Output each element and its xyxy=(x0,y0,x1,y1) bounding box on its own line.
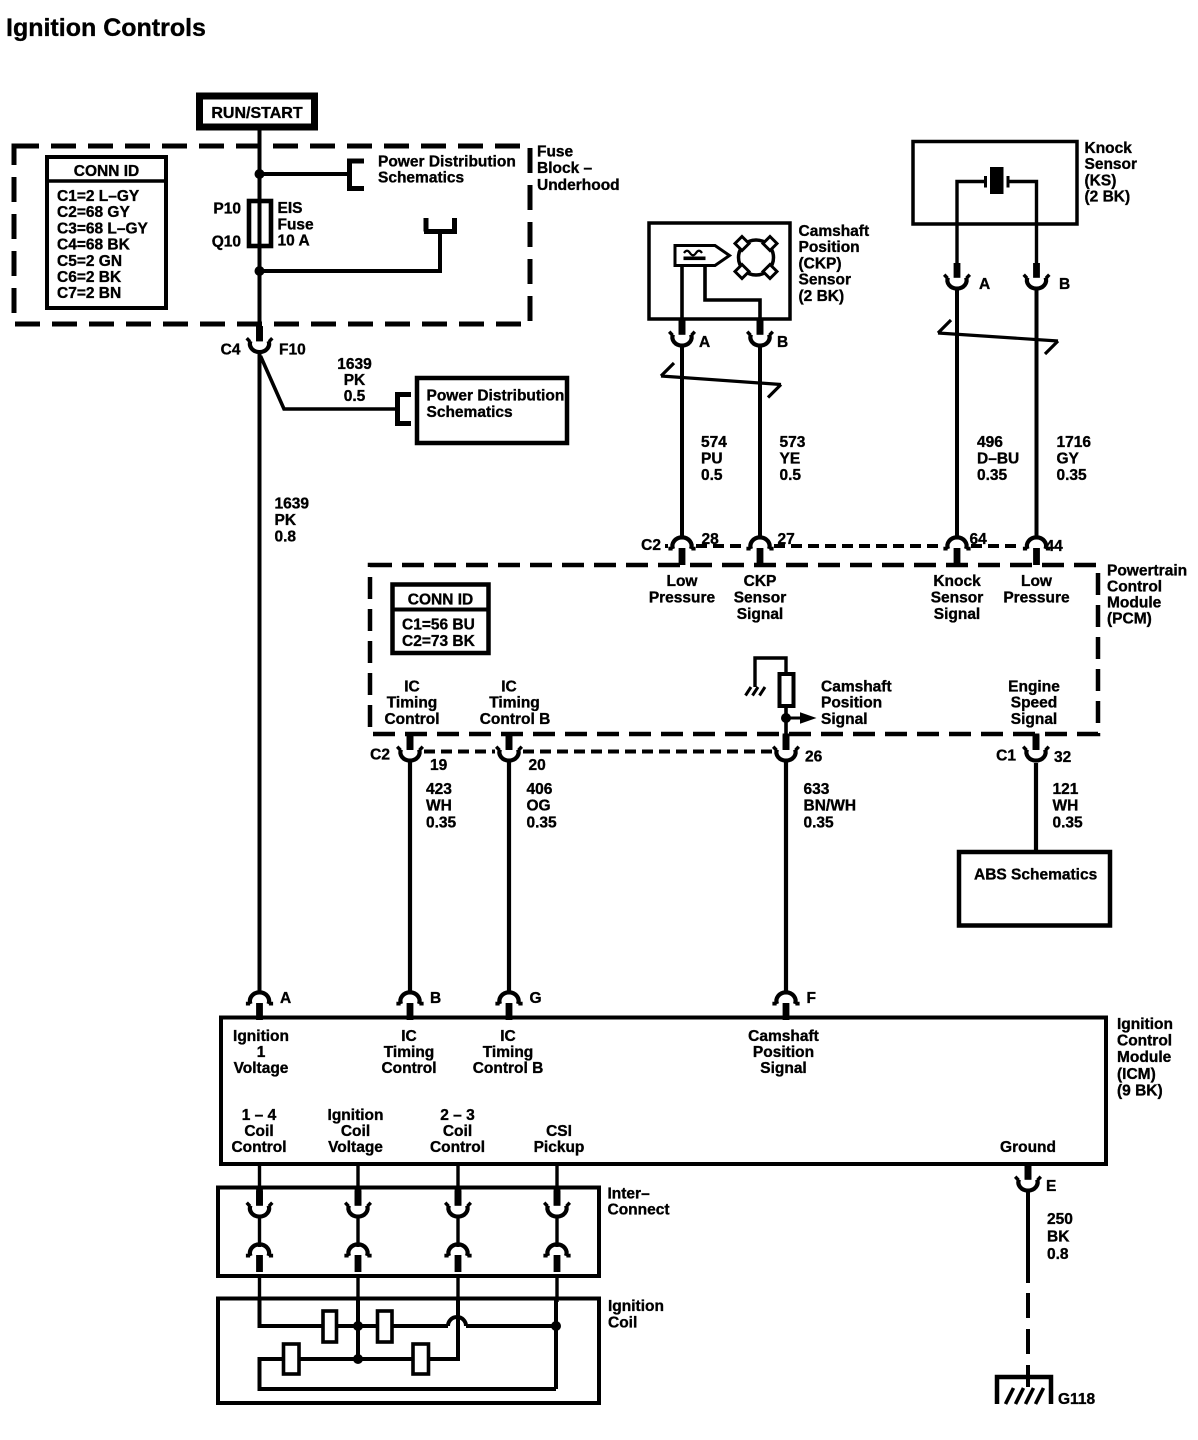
interior connector bracket symbol xyxy=(424,218,457,232)
connector PCM pin 26 xyxy=(773,735,799,761)
pin bar CKP A through box edge xyxy=(679,319,686,335)
svg-text:B: B xyxy=(777,334,788,351)
connector PCM pin 19 xyxy=(397,735,423,761)
svg-text:Q10: Q10 xyxy=(212,234,241,251)
node camshaft position signal junction xyxy=(781,713,791,723)
dashed connector line C2 (20-26) xyxy=(523,750,772,754)
pin bar PCM pin 26 through box edge xyxy=(783,734,790,751)
connector ICM pin E xyxy=(1015,1165,1041,1191)
connector ICM pin F xyxy=(772,992,799,1020)
svg-text:C2: C2 xyxy=(370,747,390,764)
node junction below fuse xyxy=(255,266,265,276)
dashed connector line C2 (64-44) xyxy=(971,544,1022,548)
svg-text:RUN/START: RUN/START xyxy=(211,105,302,122)
coil winding 1 xyxy=(323,1311,337,1342)
wire ICM coil pin 4 to interconnect xyxy=(555,1164,558,1190)
wire interconnect to ignition coil 1 xyxy=(258,1276,261,1302)
wire KS B to connector xyxy=(1035,224,1038,263)
connector KS pin A xyxy=(944,263,970,289)
node coil junction 1 xyxy=(353,1321,363,1331)
svg-text:64: 64 xyxy=(970,531,988,548)
wire 573 YE 0.5 xyxy=(758,347,762,536)
wire 1716 GY 0.35 xyxy=(1035,290,1039,536)
harness interrupt symbol (KS wires) xyxy=(938,320,1058,354)
ignition coil box xyxy=(218,1299,599,1404)
ground G118 xyxy=(997,1377,1051,1404)
wire 423 WH 0.35 xyxy=(408,762,412,991)
wire interconnect to ignition coil 2 xyxy=(356,1276,359,1302)
power distribution schematics box xyxy=(417,378,567,443)
interconnect connector pair bottom 1 xyxy=(246,1244,273,1272)
connector PCM pin 27 xyxy=(746,537,773,565)
inter-connect box xyxy=(218,1188,599,1277)
svg-text:A: A xyxy=(280,990,291,1007)
svg-text:E: E xyxy=(1046,1178,1056,1195)
pin bar CKP B through box edge xyxy=(757,319,764,335)
camshaft position (CKP) sensor box xyxy=(649,223,790,319)
wire branch 1639 PK 0.5 to power distribution schematics xyxy=(261,356,396,409)
coil wire 4 vertical xyxy=(554,1300,558,1389)
svg-text:P10: P10 xyxy=(213,201,241,218)
wire 121 WH 0.35 xyxy=(1034,763,1038,852)
connector PCM pin 44 xyxy=(1023,537,1050,565)
pin bar C4/F10 through fuse block edge xyxy=(256,326,263,341)
svg-text:C4: C4 xyxy=(221,342,241,359)
powertrain control module (PCM) dashed box xyxy=(370,565,1098,734)
coil secondary bus (wire 3) xyxy=(260,1300,557,1389)
PCM internal wire below resistor xyxy=(784,706,788,736)
connector KS pin B xyxy=(1024,263,1050,289)
interconnect connector pair bottom 2 xyxy=(344,1244,371,1272)
wire run/start feed into fuse block xyxy=(258,130,262,326)
connector C4 / F10 xyxy=(247,327,273,353)
svg-text:C1=56 BUC2=73 BK: C1=56 BUC2=73 BK xyxy=(402,617,476,651)
coil primary bus (wire 1) xyxy=(260,1300,557,1326)
connector PCM pin 28 xyxy=(668,537,695,565)
node coil junction 2 xyxy=(551,1321,561,1331)
svg-text:27: 27 xyxy=(778,531,795,548)
fuse EIS 10 A (P10/Q10) xyxy=(249,201,271,246)
knock sensor (KS) box xyxy=(913,142,1077,225)
connector PCM pin 64 xyxy=(943,537,970,565)
pin bar PCM pin 20 through box edge xyxy=(506,734,513,751)
svg-text:44: 44 xyxy=(1046,538,1064,555)
node junction to power distribution schematics xyxy=(255,169,265,179)
svg-text:20: 20 xyxy=(529,757,546,774)
pin bar PCM pin 19 through box edge xyxy=(407,734,414,751)
harness interrupt symbol (CKP wires) xyxy=(661,363,781,398)
svg-text:A: A xyxy=(979,276,990,293)
svg-text:F10: F10 xyxy=(279,342,306,359)
connector CKP pin A xyxy=(669,320,695,346)
wire KS A to connector xyxy=(955,224,958,263)
svg-text:CONN ID: CONN ID xyxy=(74,163,139,180)
CKP hall-effect sensor symbol xyxy=(675,246,730,266)
svg-text:B: B xyxy=(1059,276,1070,293)
interconnect connector pair top 4 xyxy=(544,1191,570,1217)
svg-text:CONN ID: CONN ID xyxy=(408,592,473,609)
svg-text:28: 28 xyxy=(702,531,720,548)
pin bar PCM pin 32 through box edge xyxy=(1033,734,1040,751)
crossover hump xyxy=(448,1317,466,1326)
dashed connector line C2 (19-20) xyxy=(424,750,495,754)
CKP internal wire B xyxy=(705,266,760,320)
CONN ID table (fuse block) xyxy=(47,157,166,308)
svg-text:C2: C2 xyxy=(641,537,661,554)
dashed connector line C2 (28-27) xyxy=(696,544,746,548)
interconnect wire 2 xyxy=(356,1218,359,1247)
interconnect pin bar top 4 xyxy=(554,1190,561,1206)
svg-text:C1: C1 xyxy=(996,748,1016,765)
off-page bracket (power distribution schematics) xyxy=(350,159,365,192)
off-page bracket (power distribution schematics, lower) xyxy=(398,392,412,426)
wire from fuse output to interior connector bracket xyxy=(260,233,441,271)
wire 633 BN/WH 0.35 xyxy=(784,762,788,991)
coil winding 2 xyxy=(378,1311,393,1342)
CKP internal wire A xyxy=(680,266,684,320)
node coil junction 3 xyxy=(353,1354,363,1364)
wire ICM coil pin 3 to interconnect xyxy=(456,1164,459,1190)
wire 574 PU 0.5 xyxy=(680,347,684,536)
svg-text:G118: G118 xyxy=(1058,1391,1095,1408)
interconnect wire 3 xyxy=(456,1218,459,1247)
interconnect connector pair top 3 xyxy=(445,1191,471,1217)
svg-text:ABS Schematics: ABS Schematics xyxy=(974,867,1097,884)
svg-text:Ignition Controls: Ignition Controls xyxy=(6,14,206,42)
dashed wire continuation 250 BK 0.8 xyxy=(1026,1293,1030,1387)
PCM internal ground hatch xyxy=(746,687,766,696)
wire interconnect to ignition coil 3 xyxy=(456,1276,459,1302)
PCM internal wire to ground xyxy=(755,658,786,687)
coil wire 2 vertical xyxy=(356,1300,360,1359)
wire 250 BK 0.8 xyxy=(1026,1192,1030,1283)
wire 496 D-BU 0.35 xyxy=(955,290,959,536)
wire 1639 PK 0.8 (ignition 1 voltage) xyxy=(258,354,262,991)
camshaft position signal arrow xyxy=(786,712,817,723)
svg-text:G: G xyxy=(530,990,542,1007)
wire 406 OG 0.35 xyxy=(507,762,511,991)
svg-text:B: B xyxy=(430,990,441,1007)
connector ICM pin A xyxy=(246,992,273,1020)
wire interconnect to ignition coil 4 xyxy=(555,1276,558,1302)
svg-text:A: A xyxy=(699,334,710,351)
interconnect pin bar top 2 xyxy=(355,1190,362,1206)
svg-text:F: F xyxy=(807,990,816,1007)
interconnect connector pair bottom 4 xyxy=(543,1244,570,1272)
svg-text:19: 19 xyxy=(430,757,448,774)
interconnect pin bar top 1 xyxy=(256,1190,263,1206)
RUN/START hot-in-run label box xyxy=(196,93,318,131)
interconnect connector pair top 1 xyxy=(247,1191,273,1217)
svg-text:32: 32 xyxy=(1054,749,1071,766)
connector PCM pin 32 xyxy=(1023,735,1049,761)
connector ICM pin G xyxy=(495,992,522,1020)
wire to power distribution schematics bracket xyxy=(260,172,349,176)
connector ICM pin B xyxy=(396,992,423,1020)
interconnect connector pair top 2 xyxy=(345,1191,371,1217)
interconnect connector pair bottom 3 xyxy=(444,1244,471,1272)
CONN ID table (PCM) xyxy=(393,585,489,654)
PCM internal resistor xyxy=(780,674,794,706)
interconnect pin bar top 3 xyxy=(455,1190,462,1206)
dash stub left of pin 28 xyxy=(665,544,668,548)
connector PCM pin 20 xyxy=(496,735,522,761)
svg-text:26: 26 xyxy=(805,749,823,766)
pin bar ICM pin E through box edge xyxy=(1025,1164,1032,1180)
svg-text:Ground: Ground xyxy=(1000,1139,1056,1156)
fuse block - underhood (dashed box) xyxy=(14,146,530,324)
CKP reluctor wheel symbol xyxy=(735,237,777,279)
coil winding 3 xyxy=(284,1344,300,1374)
svg-text:KnockSensor(KS)(2 BK): KnockSensor(KS)(2 BK) xyxy=(1085,140,1138,206)
knock sensor piezo element xyxy=(957,167,1037,224)
svg-text:KnockSensorSignal: KnockSensorSignal xyxy=(931,573,984,623)
coil winding 4 xyxy=(413,1344,429,1374)
interconnect wire 1 xyxy=(258,1218,261,1247)
svg-text:EngineSpeedSignal: EngineSpeedSignal xyxy=(1008,679,1060,728)
wire ICM coil pin 2 to interconnect xyxy=(356,1164,359,1190)
connector CKP pin B xyxy=(747,320,773,346)
wire ICM coil pin 1 to interconnect xyxy=(258,1164,261,1190)
ignition control module (ICM) box xyxy=(221,1018,1106,1165)
ABS schematics box xyxy=(959,852,1110,926)
dashed connector line C2 (27-64) xyxy=(774,544,943,548)
interconnect wire 4 xyxy=(555,1218,558,1247)
